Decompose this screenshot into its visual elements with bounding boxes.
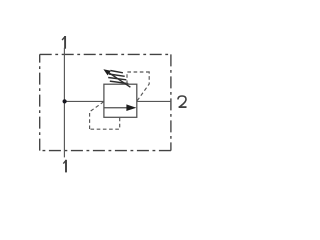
relief valve body square	[104, 84, 137, 117]
wire: port 1 vertical line	[63, 48, 65, 158]
adjustment arrow through spring	[109, 73, 131, 88]
port 1 label (bottom)	[63, 160, 66, 173]
port 1 label (top)	[62, 36, 65, 49]
enclosure dash-dot boundary right edge	[170, 54, 172, 150]
pilot line (dashed) diagonal down to outlet junction	[137, 71, 149, 100]
pilot line (dashed) from inlet down-left around to spring chamber: diagonal and left leg	[90, 102, 104, 130]
pilot line (dashed) from valve top up and right	[127, 72, 149, 84]
enclosure dash-dot boundary bottom edge	[40, 150, 171, 152]
wire: branch from node to valve inlet	[64, 100, 104, 102]
pilot line (dashed) bottom run up to valve bottom	[90, 118, 120, 130]
spring (zigzag) on top of valve	[108, 71, 128, 84]
enclosure dash-dot boundary left edge	[39, 54, 41, 150]
enclosure dash-dot boundary top edge	[40, 53, 171, 55]
port 2 label (right)	[178, 96, 187, 107]
node junction dot	[63, 99, 67, 103]
flow path arrow inside valve	[104, 107, 127, 109]
wire: valve outlet to port 2	[137, 100, 171, 102]
